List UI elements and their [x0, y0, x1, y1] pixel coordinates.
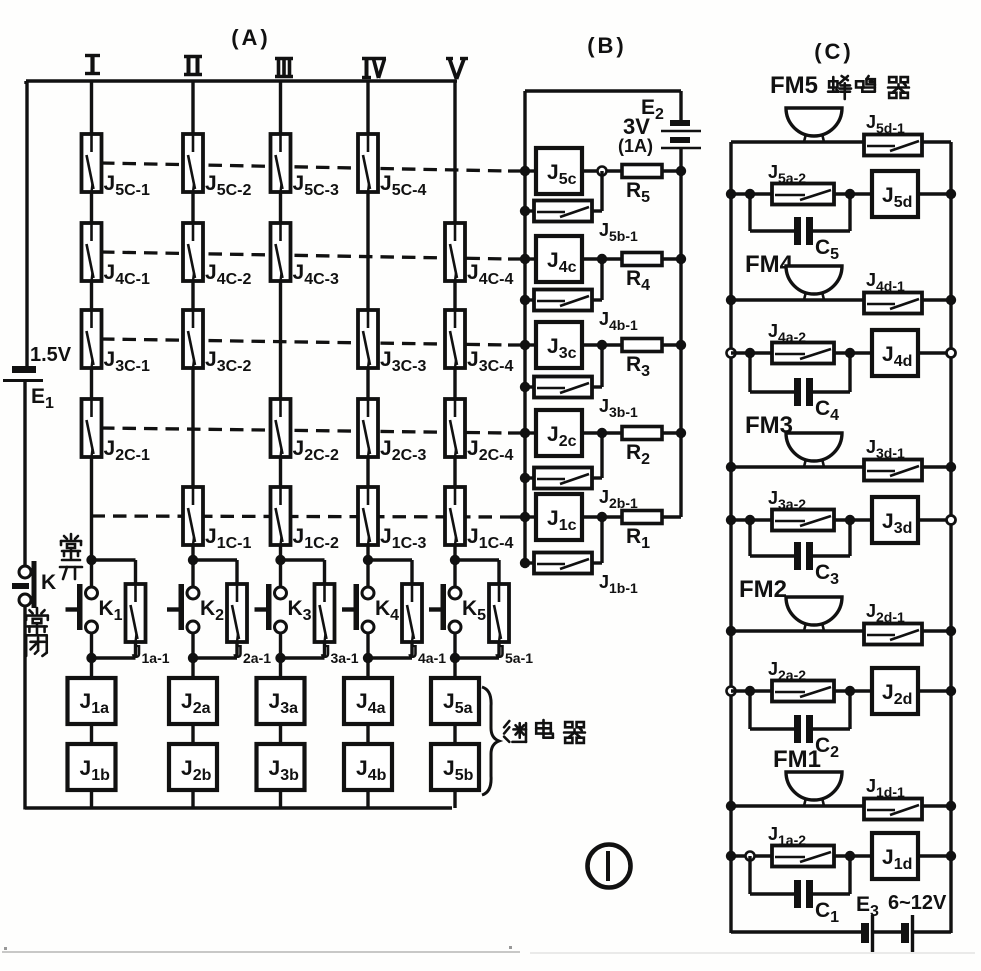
node: junction coil/contact/resistor row 4	[597, 254, 607, 264]
node: rejoin below K4	[363, 653, 373, 663]
node: junction coil/contact/resistor row 5	[598, 167, 607, 176]
contact J3C-1 (relay contact, row 3 col I)	[82, 310, 150, 375]
label 继电器 (relays)	[504, 720, 585, 743]
wire: down to relay J1a	[90, 658, 93, 679]
svg-text:(C): (C)	[814, 39, 854, 64]
contact J4a-1 (self-holding)	[402, 584, 446, 666]
node: left rail unit 3	[726, 462, 736, 472]
push button K2	[167, 560, 224, 658]
svg-text:FM5: FM5	[770, 72, 818, 99]
wire: junction down to contact J1b-1	[592, 517, 602, 563]
contact J1b-1	[525, 553, 638, 597]
relay coil J2b	[169, 744, 217, 790]
capacitor C4	[794, 378, 839, 424]
node: capacitor branch rejoin	[845, 189, 855, 199]
wire: holding contact bottom back to column	[281, 642, 325, 658]
wire: rail to contact J3a-2	[731, 518, 772, 521]
relay coil J3d	[872, 497, 918, 543]
relay coil J5c	[525, 148, 582, 194]
contact J5d-1	[864, 112, 922, 156]
section C right rail	[949, 142, 952, 933]
contact J2d-1	[864, 601, 922, 645]
wire: rail to contact J5a-2	[731, 192, 772, 195]
buzzer FM5	[786, 108, 842, 142]
relay coil J1c	[525, 494, 582, 540]
node: column V junction to button K5 branch	[450, 555, 460, 565]
node: capacitor branch split	[745, 515, 755, 525]
wire: left rail from K down to bottom bus	[23, 606, 26, 810]
wire: unit 5 top rail	[731, 140, 951, 143]
wire: coil J1c to resistor R1	[582, 515, 622, 518]
wire: junction down to contact J5b-1	[592, 171, 602, 211]
node: column IV junction to button K4 branch	[363, 555, 373, 565]
contact J5C-4 (relay contact, row 5 col IV)	[358, 134, 426, 199]
node: dashed row 2 joins B rail	[520, 428, 530, 438]
node: right rail at relay row 4	[947, 349, 956, 358]
wire: contact to relay J2d	[834, 689, 872, 692]
contact J3a-2	[768, 488, 834, 531]
node: junction coil/contact/resistor row 3	[597, 340, 607, 350]
resistor R1	[622, 511, 662, 553]
column label II	[184, 56, 202, 75]
node: column III junction to button K3 branch	[275, 555, 285, 565]
wire: J1a to J1b	[90, 724, 93, 745]
push button K1	[66, 560, 123, 658]
wire: branch to holding contact J2a-1	[193, 560, 237, 585]
label FM1	[773, 746, 821, 773]
relay coil J4c	[525, 236, 582, 282]
node: left rail at contact J4b-1	[520, 295, 530, 305]
section title (A)	[231, 25, 271, 50]
wire: unit 4 top rail	[731, 298, 951, 301]
wire: left rail from top bus down to battery E1	[25, 81, 28, 367]
contact J5C-3 (relay contact, row 5 col III)	[271, 134, 339, 199]
svg-text:6~12V: 6~12V	[888, 892, 947, 914]
node: column I junction to button K1 branch	[86, 555, 96, 565]
node: dashed row 3 joins B rail	[520, 340, 530, 350]
capacitor C4 branch wires	[750, 353, 850, 392]
push button K5	[429, 560, 486, 658]
node: capacitor branch rejoin	[845, 515, 855, 525]
relay coil J4a	[344, 678, 392, 724]
node: right rail at R5	[676, 166, 686, 176]
contact J2a-2	[768, 659, 834, 702]
contact J3a-1 (self-holding)	[315, 584, 359, 666]
wire: matrix column I vertical	[90, 81, 93, 560]
contact J4a-2	[768, 321, 834, 364]
relay coil J5d	[872, 171, 918, 217]
wire: R5 to right rail	[662, 169, 681, 172]
wire: J2b to bottom bus	[191, 790, 194, 808]
wire: R1 to right rail	[662, 515, 681, 518]
dashed linkage row J1c	[92, 516, 525, 517]
wire: R2 to right rail	[662, 431, 681, 434]
contact J4C-3 (relay contact, row 4 col III)	[271, 223, 339, 288]
node: right rail at relay row 1	[946, 851, 956, 861]
contact J1C-1 (relay contact, row 1 col II)	[183, 487, 251, 552]
contact J2C-3 (relay contact, row 2 col IV)	[358, 399, 426, 464]
wire: J3b to bottom bus	[279, 790, 282, 808]
node: right rail at relay row 3	[947, 516, 956, 525]
node: left rail at relay row 2	[727, 687, 736, 696]
wire: R3 to right rail	[662, 343, 681, 346]
resistor R2	[622, 427, 662, 469]
contact J1a-2	[768, 824, 834, 867]
buzzer FM1	[786, 772, 842, 806]
relay coil J4b	[344, 744, 392, 790]
node: rejoin below K1	[86, 653, 96, 663]
node: left rail unit 1	[726, 801, 736, 811]
section C bottom bus wire	[731, 930, 862, 933]
contact J4d-1	[864, 270, 922, 314]
dashed linkage row J2c	[101, 428, 524, 433]
wire: junction down to contact J2b-1	[592, 433, 602, 478]
svg-text:FM1: FM1	[773, 746, 821, 773]
svg-text:(A): (A)	[231, 25, 271, 50]
node: left rail unit 2	[726, 626, 736, 636]
wire: holding contact bottom back to column	[368, 642, 412, 658]
dashed linkage row J3c	[101, 339, 524, 345]
capacitor C1	[794, 880, 839, 926]
relay coil J2a	[169, 678, 217, 724]
node: capacitor branch rejoin	[845, 851, 855, 861]
resistor R5	[622, 165, 662, 207]
wire: holding contact bottom back to column	[455, 642, 499, 658]
contact J3C-4 (relay contact, row 3 col V)	[445, 310, 513, 375]
contact J3b-1	[525, 377, 638, 421]
node: capacitor branch split	[745, 348, 755, 358]
push button K3	[255, 560, 312, 658]
contact J3C-2 (relay contact, row 3 col II)	[183, 310, 251, 375]
wire: holding contact bottom back to column	[193, 642, 237, 658]
contact J1a-1 (self-holding)	[126, 584, 170, 666]
contact J2C-2 (relay contact, row 2 col III)	[271, 399, 339, 464]
relay coil J3a	[257, 678, 305, 724]
wire: J5b to bottom bus	[453, 790, 456, 808]
node: right rail at relay row 5	[946, 189, 956, 199]
node: capacitor branch split	[746, 852, 755, 861]
contact J2C-4 (relay contact, row 2 col V)	[445, 399, 513, 464]
wire: relay J1d to right rail	[918, 854, 951, 857]
contact J3C-3 (relay contact, row 3 col IV)	[358, 310, 426, 375]
contact J4b-1	[525, 290, 638, 334]
contact J5C-2 (relay contact, row 5 col II)	[183, 134, 251, 199]
capacitor C1 branch wires	[750, 856, 850, 894]
node: rejoin below K5	[450, 653, 460, 663]
contact J5a-2	[768, 162, 834, 205]
contact J1d-1	[864, 776, 922, 820]
wire: unit 1 top rail	[731, 804, 951, 807]
wire: battery to right rail	[914, 930, 951, 933]
contact J2b-1	[525, 468, 638, 512]
battery E3 6~12V	[856, 892, 947, 952]
contact J2a-1 (self-holding)	[227, 584, 271, 666]
wire: contact to relay J1d	[834, 854, 872, 857]
relay coil J1a	[68, 678, 116, 724]
label FM4	[745, 251, 794, 278]
battery E2 3V (1A)	[618, 91, 701, 156]
svg-text:1.5V: 1.5V	[30, 344, 72, 366]
contact J4C-2 (relay contact, row 4 col II)	[183, 223, 251, 288]
wire: branch to holding contact J4a-1	[368, 560, 412, 585]
wire: down to relay J5a	[453, 658, 456, 679]
node: junction coil/contact/resistor row 1	[597, 512, 607, 522]
wire: rail to contact J2a-2	[731, 689, 772, 692]
wire: contact to relay J5d	[834, 192, 872, 195]
node: left rail at contact J2b-1	[520, 473, 530, 483]
wire: matrix column IV vertical	[366, 81, 369, 560]
wire: unit 3 top rail	[731, 465, 951, 468]
svg-text:FM2: FM2	[739, 576, 787, 603]
relay coil J2c	[525, 410, 582, 456]
svg-text:K: K	[41, 571, 56, 594]
section C left rail	[729, 142, 732, 933]
wire: rail to contact J4a-2	[731, 351, 772, 354]
contact J4C-4 (relay contact, row 4 col V)	[445, 223, 513, 288]
column label V	[446, 59, 468, 80]
battery E1 1.5V	[3, 344, 72, 412]
label FM5 蜂鸣器 (buzzer)	[770, 72, 909, 99]
push button K4	[342, 560, 399, 658]
dashed linkage row J5c	[101, 163, 524, 171]
section title (B)	[587, 33, 627, 58]
label 常开 (normally open)	[60, 534, 82, 579]
node: left rail at relay row 1	[726, 851, 736, 861]
wire: contact to relay J4d	[834, 351, 872, 354]
node: left rail at contact J3b-1	[520, 382, 530, 392]
contact J3d-1	[864, 437, 922, 481]
node: left rail at contact J5b-1	[520, 206, 530, 216]
wire: relay J3d to right rail	[918, 518, 951, 521]
node: rejoin below K2	[188, 653, 198, 663]
node: capacitor branch split	[745, 686, 755, 696]
wire: J2a to J2b	[191, 724, 194, 745]
relay coil J1b	[68, 744, 116, 790]
wire: R4 to right rail	[662, 257, 681, 260]
buzzer FM4	[786, 266, 842, 300]
node: capacitor branch rejoin	[845, 686, 855, 696]
contact J4C-1 (relay contact, row 4 col I)	[82, 223, 150, 288]
wire: junction down to contact J4b-1	[592, 259, 602, 300]
wire: matrix column III vertical	[279, 81, 282, 560]
relay coil J5a	[431, 678, 479, 724]
resistor R4	[622, 253, 662, 295]
wire: left rail from E1 down to switch K	[23, 382, 26, 567]
capacitor C2 branch wires	[750, 691, 850, 729]
relay coil J5b	[431, 744, 479, 790]
wire: down to relay J3a	[279, 658, 282, 679]
buzzer FM3	[786, 433, 842, 467]
section B top bus wire	[525, 89, 681, 92]
wire: branch to holding contact J3a-1	[281, 560, 325, 585]
node: left rail at relay row 5	[726, 189, 736, 199]
wire: relay J4d to right rail	[918, 351, 951, 354]
wire: branch to holding contact J5a-1	[455, 560, 499, 585]
node: right rail unit 4	[946, 295, 956, 305]
node: junction coil/contact/resistor row 2	[597, 428, 607, 438]
contact J1C-3 (relay contact, row 1 col IV)	[358, 487, 426, 552]
bottom bus wire of section A	[25, 806, 452, 809]
wire: down to relay J2a	[191, 658, 194, 679]
wire: coil J2c to resistor R2	[582, 431, 622, 434]
relay coil J2d	[872, 668, 918, 714]
node: right rail at R4	[676, 254, 686, 264]
wire: junction down to contact J3b-1	[592, 345, 602, 387]
capacitor C2	[794, 715, 839, 761]
relay coil J3c	[525, 322, 582, 368]
contact J5a-1 (self-holding)	[489, 584, 533, 666]
wire: unit 2 top rail	[731, 629, 951, 632]
wire: J4a to J4b	[366, 724, 369, 745]
section B left rail	[523, 91, 526, 565]
buzzer FM2	[786, 597, 842, 631]
node: rejoin below K3	[275, 653, 285, 663]
node: left rail at relay row 4	[727, 349, 736, 358]
resistor R3	[622, 339, 662, 381]
node: dashed row 1 joins B rail	[520, 512, 530, 522]
contact J2C-1 (relay contact, row 2 col I)	[82, 399, 150, 464]
wire: rail to contact J1a-2	[731, 854, 772, 857]
relay coil J4d	[872, 330, 918, 376]
capacitor C5	[794, 217, 839, 263]
contact J1C-2 (relay contact, row 1 col III)	[271, 487, 339, 552]
wire: J5a to J5b	[453, 724, 456, 745]
contact J1C-4 (relay contact, row 1 col V)	[445, 487, 513, 552]
node: left rail at relay row 3	[726, 515, 736, 525]
node: column II junction to button K2 branch	[188, 555, 198, 565]
wire: relay J5d to right rail	[918, 192, 951, 195]
switch K (changeover) with terminals	[12, 561, 56, 608]
contact J5b-1	[525, 201, 638, 245]
node: right rail at R2	[676, 428, 686, 438]
column label IV	[362, 58, 386, 78]
wire: relay J2d to right rail	[918, 689, 951, 692]
label FM2	[739, 576, 787, 603]
node: capacitor branch rejoin	[845, 348, 855, 358]
node: right rail at R3	[676, 340, 686, 350]
section title (C)	[814, 39, 854, 64]
node: right rail unit 2	[946, 626, 956, 636]
top bus wire of matrix A	[26, 81, 457, 84]
wire: J4b to bottom bus	[366, 790, 369, 808]
node: dashed row 5 joins B rail	[520, 166, 530, 176]
contact J5C-1 (relay contact, row 5 col I)	[82, 134, 150, 199]
wire: matrix column II vertical	[191, 81, 194, 560]
column label III	[275, 58, 293, 77]
wire: matrix column V vertical	[453, 81, 456, 560]
figure number 1 (circled)	[588, 845, 631, 888]
node: left rail at contact J1b-1	[520, 558, 530, 568]
wire: coil J5c to resistor R5	[582, 169, 622, 172]
capacitor C5 branch wires	[750, 194, 850, 231]
relay coil J1d	[872, 833, 918, 879]
dashed linkage row J4c	[101, 252, 524, 259]
wire: J1b to bottom bus	[90, 790, 93, 808]
wire: J3a to J3b	[279, 724, 282, 745]
column label I	[85, 55, 100, 74]
label FM3	[745, 412, 793, 439]
svg-text:(B): (B)	[587, 33, 627, 58]
wire: coil J4c to resistor R4	[582, 257, 622, 260]
relay coil J3b	[257, 744, 305, 790]
label 常闭 (normally closed)	[26, 608, 48, 656]
capacitor C3 branch wires	[750, 520, 850, 556]
wire: branch to holding contact J1a-1	[92, 560, 136, 585]
wire: contact to relay J3d	[834, 518, 872, 521]
wire: down to relay J4a	[366, 658, 369, 679]
wire: coil J3c to resistor R3	[582, 343, 622, 346]
svg-text:(1A): (1A)	[618, 136, 653, 156]
node: right rail unit 3	[946, 462, 956, 472]
brace for relay group	[482, 687, 499, 795]
node: capacitor branch split	[745, 189, 755, 199]
node: right rail unit 1	[946, 801, 956, 811]
capacitor C3	[794, 542, 839, 588]
node: left rail unit 4	[726, 295, 736, 305]
wire: holding contact bottom back to column	[92, 642, 136, 658]
section B right rail	[679, 148, 682, 517]
scan artifact line at bottom	[2, 946, 975, 953]
node: dashed row 4 joins B rail	[520, 254, 530, 264]
node: right rail at relay row 2	[946, 686, 956, 696]
